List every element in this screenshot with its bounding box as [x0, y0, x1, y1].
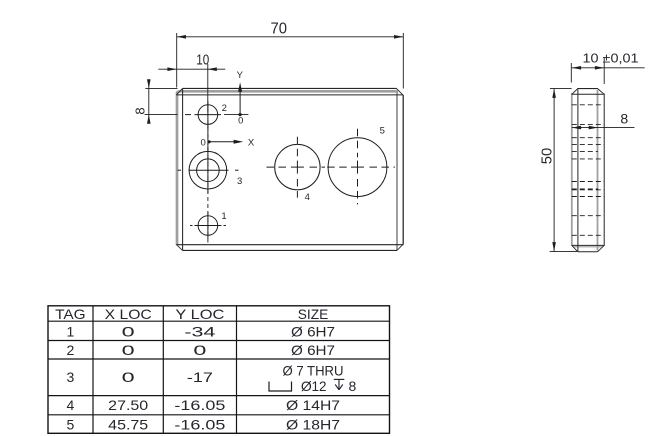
- table header row: [55, 306, 328, 322]
- svg-text:4: 4: [305, 192, 310, 203]
- svg-text:27.50: 27.50: [108, 397, 148, 413]
- svg-text:8: 8: [349, 378, 357, 394]
- side view silhouette gray lines: [572, 89, 603, 251]
- svg-text:Y LOC: Y LOC: [175, 306, 224, 322]
- svg-text:0: 0: [122, 342, 135, 358]
- svg-text:1: 1: [67, 323, 75, 339]
- svg-text:3: 3: [67, 369, 75, 385]
- svg-text:Ø: Ø: [301, 378, 312, 394]
- svg-text:-16.05: -16.05: [174, 397, 225, 413]
- table row 2: [67, 342, 336, 358]
- svg-text:12: 12: [312, 378, 327, 394]
- table row 4: [67, 397, 341, 413]
- hole table: [48, 306, 390, 434]
- front view plate inner edges (chamfer projection): [176, 89, 403, 251]
- hole 1: [190, 212, 226, 239]
- svg-text:SIZE: SIZE: [298, 306, 329, 322]
- svg-text:X: X: [248, 137, 255, 148]
- svg-text:1: 1: [221, 211, 226, 222]
- side view outline (black): [572, 89, 604, 252]
- side view hidden hole lines: [572, 105, 604, 236]
- svg-text:0: 0: [122, 323, 135, 339]
- svg-text:45.75: 45.75: [108, 416, 148, 432]
- svg-text:-34: -34: [184, 323, 215, 339]
- svg-text:X LOC: X LOC: [105, 306, 152, 322]
- front view plate outer edges (black): [183, 88, 404, 250]
- front view corner chamfer diagonals: [176, 89, 403, 251]
- Y axis arrow: [237, 70, 244, 127]
- hole 3 (counterbore): [178, 147, 239, 194]
- svg-text:-17: -17: [187, 369, 213, 385]
- svg-text:50: 50: [539, 148, 556, 165]
- svg-text:3: 3: [237, 176, 242, 187]
- vertical centerline through holes 1-3: [207, 120, 209, 243]
- dimension 50 (side): [539, 89, 578, 252]
- svg-text:10 ±0,01: 10 ±0,01: [583, 52, 639, 66]
- svg-text:8: 8: [620, 110, 628, 126]
- depth symbol row 3: [334, 379, 345, 389]
- svg-text:Ø 7 THRU: Ø 7 THRU: [283, 363, 344, 379]
- dimension 10 ±0,01 (side): [571, 52, 644, 85]
- table row 1: [67, 323, 336, 339]
- dimension 70: [177, 21, 404, 89]
- svg-text:-16.05: -16.05: [174, 416, 225, 432]
- hole 2 horizontal centerline to Y origin: [224, 114, 248, 116]
- table row 3: [67, 363, 357, 395]
- hole 5: [327, 129, 395, 205]
- dimension 8 (side, counterbore depth): [572, 110, 635, 129]
- svg-text:Ø 18H7: Ø 18H7: [286, 416, 340, 432]
- svg-text:Ø 14H7: Ø 14H7: [286, 397, 340, 413]
- svg-text:2: 2: [222, 103, 227, 114]
- counterbore symbol row 3: [269, 382, 292, 392]
- svg-text:Ø 6H7: Ø 6H7: [291, 323, 335, 339]
- front view plate outline (gray silhouette): [177, 90, 397, 250]
- dimension 10 (front): [158, 52, 225, 112]
- svg-text:Ø 6H7: Ø 6H7: [291, 342, 335, 358]
- svg-text:10: 10: [196, 52, 209, 68]
- X axis arrow: [201, 137, 255, 148]
- dimension 8 (front, left): [133, 79, 178, 124]
- hole 4: [267, 137, 326, 198]
- svg-text:0: 0: [238, 116, 243, 127]
- hole 2: [185, 101, 221, 128]
- svg-text:4: 4: [67, 397, 75, 413]
- svg-text:0: 0: [193, 342, 206, 358]
- svg-text:5: 5: [380, 125, 385, 136]
- svg-text:5: 5: [67, 416, 75, 432]
- svg-text:Y: Y: [237, 70, 244, 81]
- svg-text:0: 0: [201, 137, 206, 148]
- svg-text:0: 0: [122, 369, 135, 385]
- svg-text:TAG: TAG: [55, 306, 86, 322]
- svg-text:8: 8: [133, 107, 148, 114]
- svg-text:2: 2: [67, 342, 75, 358]
- svg-text:70: 70: [270, 21, 287, 38]
- table row 5: [67, 416, 341, 432]
